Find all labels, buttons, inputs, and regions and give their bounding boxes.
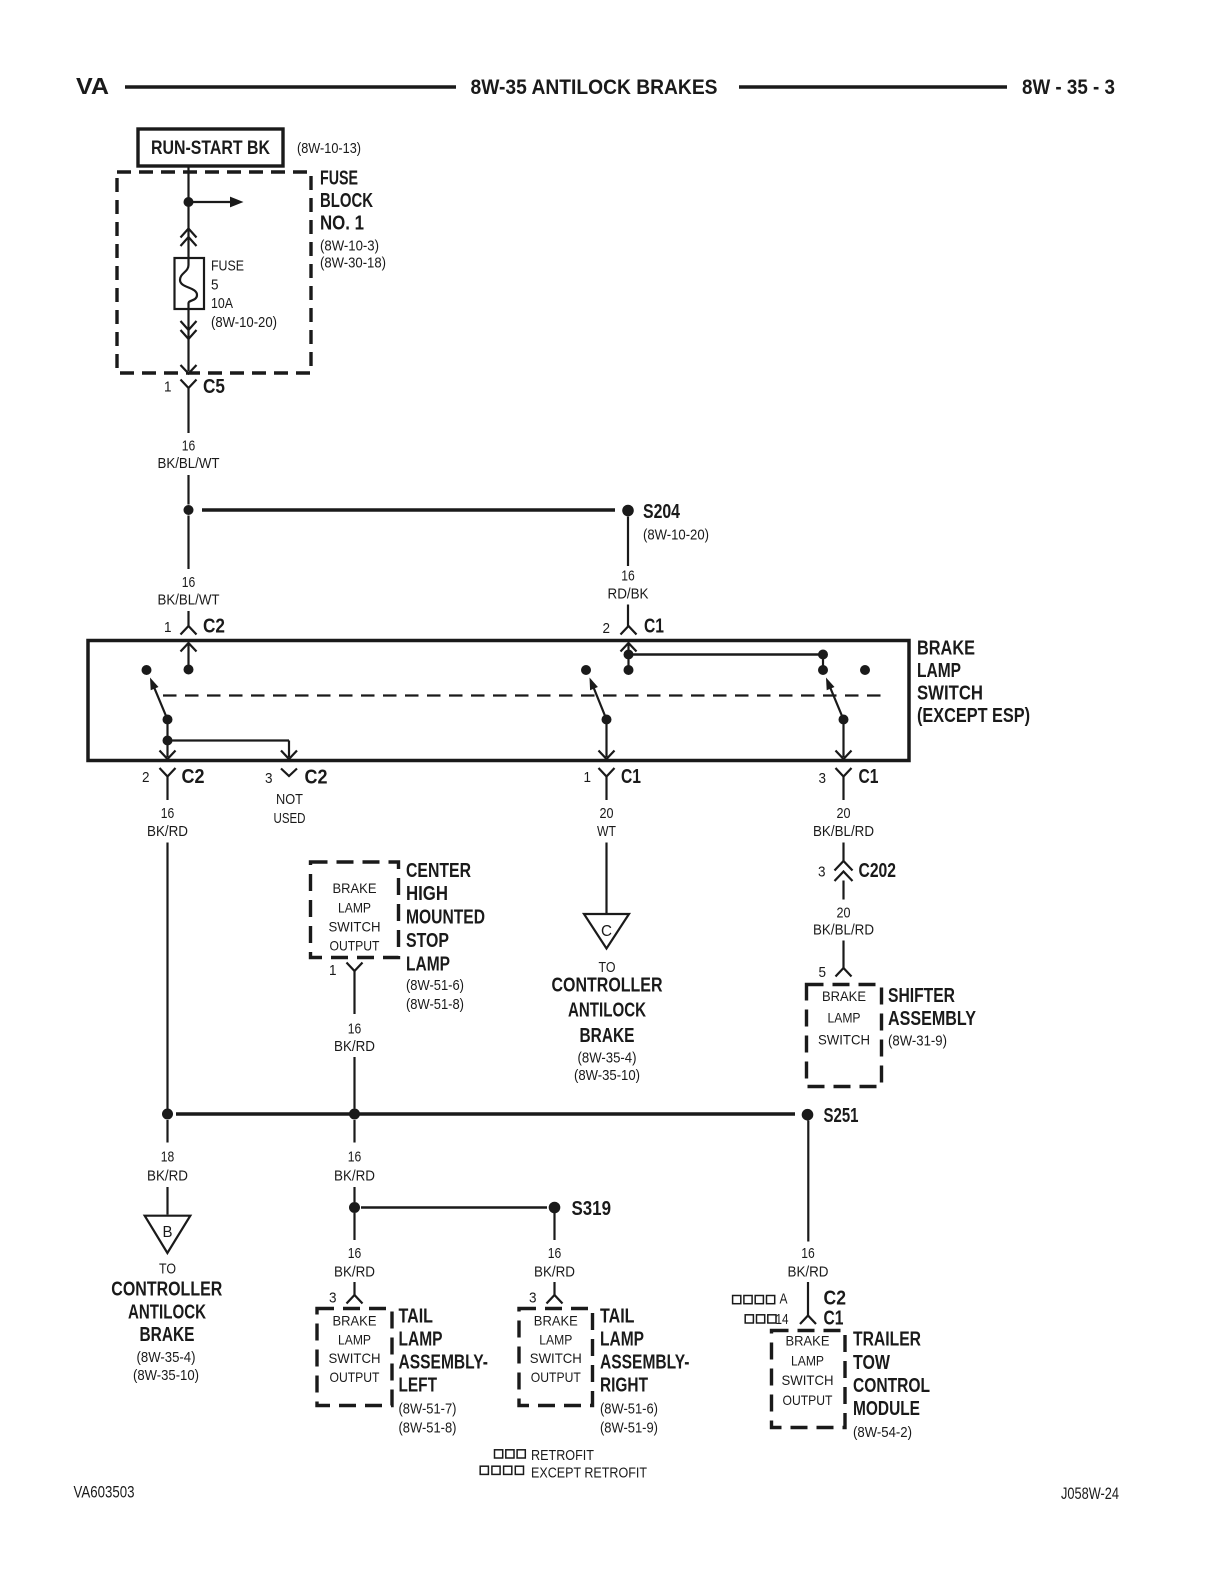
splice S319 dot: [549, 1202, 561, 1214]
wire through C202: [842, 843, 844, 862]
svg-text:C: C: [601, 923, 612, 940]
svg-text:(8W-10-20): (8W-10-20): [211, 314, 277, 331]
svg-text:LAMP: LAMP: [828, 1010, 861, 1026]
svg-text:20: 20: [837, 805, 851, 822]
svg-text:LAMP: LAMP: [539, 1331, 572, 1347]
svg-text:NO. 1: NO. 1: [320, 213, 364, 235]
svg-text:FUSE: FUSE: [211, 258, 244, 275]
svg-text:5: 5: [819, 964, 827, 981]
brake lamp switch box: [88, 641, 909, 761]
svg-text:C202: C202: [859, 860, 897, 882]
switch1 exit arrow right: [281, 751, 297, 760]
svg-text:SHIFTER: SHIFTER: [888, 985, 955, 1007]
svg-text:CONTROLLER: CONTROLLER: [552, 975, 663, 997]
wire S319 link: [361, 1206, 547, 1208]
tail-right pin 3 fork: [547, 1295, 563, 1304]
svg-text:BRAKE: BRAKE: [580, 1025, 635, 1047]
svg-text:TAIL: TAIL: [399, 1306, 434, 1328]
wire mid branch down: [353, 1120, 355, 1143]
pin2 dot lower: [627, 655, 629, 671]
junction dot S251 mid: [349, 1109, 360, 1120]
svg-text:S204: S204: [643, 501, 681, 523]
junction dot S251 left: [162, 1109, 173, 1120]
fuse block No.1 dashed box: [117, 172, 311, 373]
svg-text:16: 16: [182, 438, 196, 455]
connector C5 pin 1 fork: [181, 380, 197, 397]
connector C2 pin 1 fork: [181, 626, 197, 635]
svg-text:S251: S251: [824, 1105, 859, 1127]
svg-text:LAMP: LAMP: [791, 1352, 824, 1368]
off-page triangle C: [584, 914, 629, 949]
switch1 blade: [152, 682, 168, 719]
switch1 junction dot: [163, 736, 173, 746]
svg-text:BK/BL/WT: BK/BL/WT: [158, 592, 220, 609]
wire to triangle B: [166, 1187, 168, 1215]
svg-text:C5: C5: [203, 376, 225, 398]
svg-text:16: 16: [548, 1245, 562, 1262]
wire into tail-left: [353, 1282, 355, 1295]
legend retrofit squares: [495, 1450, 503, 1458]
svg-text:EXCEPT RETROFIT: EXCEPT RETROFIT: [531, 1465, 647, 1482]
svg-text:MODULE: MODULE: [853, 1398, 920, 1420]
svg-text:20: 20: [600, 805, 614, 822]
svg-text:OUTPUT: OUTPUT: [330, 938, 380, 954]
tail-left pin 3 fork: [347, 1295, 363, 1304]
wire into C2 pin1: [187, 611, 189, 626]
svg-text:BK/RD: BK/RD: [147, 823, 188, 840]
svg-text:RD/BK: RD/BK: [608, 586, 649, 603]
svg-text:SWITCH: SWITCH: [329, 919, 381, 935]
switch3 feed dot: [818, 650, 828, 660]
svg-text:BK/RD: BK/RD: [534, 1264, 575, 1281]
svg-text:C1: C1: [621, 766, 641, 788]
svg-text:LAMP: LAMP: [399, 1329, 443, 1351]
svg-text:3: 3: [265, 770, 273, 787]
svg-text:2: 2: [603, 620, 611, 637]
svg-text:BK/RD: BK/RD: [334, 1168, 375, 1185]
svg-text:20: 20: [837, 905, 851, 922]
svg-text:(8W-51-8): (8W-51-8): [406, 996, 464, 1013]
svg-text:BRAKE: BRAKE: [917, 638, 975, 660]
connector C1 pin 3 fork: [836, 768, 852, 785]
feed arrow to other circuits: [193, 201, 230, 203]
svg-text:14: 14: [776, 1311, 789, 1328]
switch3 blade: [828, 682, 844, 719]
svg-text:MOUNTED: MOUNTED: [406, 907, 485, 929]
connector C2 pin 2 fork: [160, 768, 176, 785]
svg-text:BK/BL/WT: BK/BL/WT: [158, 455, 220, 472]
wire chmsl pin1 down: [353, 971, 355, 1014]
svg-text:LAMP: LAMP: [600, 1329, 644, 1351]
svg-text:NOT: NOT: [276, 791, 303, 808]
svg-text:LAMP: LAMP: [917, 660, 961, 682]
junction dot left of S204: [184, 505, 194, 515]
svg-text:(8W-51-7): (8W-51-7): [399, 1401, 457, 1418]
trailer pin 14 squares: [745, 1315, 753, 1323]
svg-text:SWITCH: SWITCH: [782, 1372, 834, 1388]
connector C1 pin 2 fork: [621, 626, 637, 635]
svg-text:16: 16: [348, 1021, 362, 1038]
svg-text:BRAKE: BRAKE: [822, 988, 866, 1004]
wire C2-2 down: [166, 785, 168, 800]
wire tail-right down: [553, 1213, 555, 1240]
svg-text:A: A: [780, 1291, 788, 1308]
svg-text:C1: C1: [644, 616, 664, 638]
svg-text:BK/RD: BK/RD: [147, 1168, 188, 1185]
svg-text:VA: VA: [76, 73, 109, 99]
wire tail-left down: [353, 1213, 355, 1240]
svg-text:(8W-35-10): (8W-35-10): [133, 1367, 199, 1384]
svg-text:VA603503: VA603503: [74, 1483, 135, 1502]
svg-text:BK/BL/RD: BK/BL/RD: [813, 922, 874, 939]
splice S204 dot: [622, 505, 634, 517]
switch2 blade dot: [602, 715, 612, 725]
svg-text:3: 3: [819, 770, 827, 787]
svg-text:OUTPUT: OUTPUT: [330, 1369, 380, 1385]
svg-text:16: 16: [801, 1245, 815, 1262]
wire chmsl to S251: [353, 1057, 355, 1109]
svg-text:RIGHT: RIGHT: [600, 1375, 648, 1397]
svg-text:(8W-51-6): (8W-51-6): [406, 977, 464, 994]
svg-text:SWITCH: SWITCH: [818, 1032, 870, 1048]
svg-text:RETROFIT: RETROFIT: [531, 1447, 594, 1464]
svg-text:BRAKE: BRAKE: [333, 880, 377, 896]
chmsl dashed box: [311, 862, 399, 958]
svg-text:(8W-10-3): (8W-10-3): [320, 238, 379, 255]
svg-text:B: B: [163, 1224, 173, 1241]
switch3 blade dot: [839, 715, 849, 725]
svg-text:ANTILOCK: ANTILOCK: [128, 1302, 206, 1324]
svg-text:2: 2: [142, 769, 150, 786]
svg-text:CONTROLLER: CONTROLLER: [111, 1279, 222, 1301]
wire trailer down: [807, 1121, 809, 1242]
svg-text:ASSEMBLY-: ASSEMBLY-: [399, 1352, 489, 1374]
svg-text:LAMP: LAMP: [338, 1331, 371, 1347]
svg-text:FUSE: FUSE: [320, 168, 358, 190]
svg-text:LAMP: LAMP: [406, 954, 450, 976]
wire run-start to junction: [187, 166, 189, 258]
svg-text:1: 1: [329, 962, 337, 979]
switch1 blade dot: [163, 715, 173, 725]
svg-text:(EXCEPT ESP): (EXCEPT ESP): [917, 705, 1030, 727]
svg-text:C2: C2: [305, 767, 328, 789]
svg-text:(8W-54-2): (8W-54-2): [853, 1424, 912, 1441]
wire into shifter: [842, 941, 844, 969]
fuse 5 body: [175, 258, 205, 309]
svg-text:1: 1: [584, 769, 592, 786]
switch2 exit wire: [605, 720, 607, 758]
svg-text:TO: TO: [599, 959, 616, 976]
switch1 common dot: [142, 665, 152, 675]
svg-text:CONTROL: CONTROL: [853, 1375, 930, 1397]
svg-text:(8W-10-13): (8W-10-13): [297, 140, 361, 157]
svg-text:1: 1: [164, 619, 172, 636]
switch2 common dot: [581, 665, 591, 675]
svg-text:(8W-10-20): (8W-10-20): [643, 527, 709, 544]
svg-text:TAIL: TAIL: [600, 1306, 635, 1328]
svg-text:TOW: TOW: [853, 1352, 890, 1374]
chmsl pin 1 fork: [347, 963, 363, 972]
svg-text:BLOCK: BLOCK: [320, 190, 373, 212]
svg-text:16: 16: [348, 1149, 362, 1166]
svg-text:CENTER: CENTER: [406, 860, 471, 882]
svg-text:BRAKE: BRAKE: [140, 1324, 195, 1346]
svg-text:ASSEMBLY-: ASSEMBLY-: [600, 1352, 690, 1374]
connector C202 chevrons: [835, 861, 853, 871]
wire to S204 junction: [187, 475, 189, 505]
connector C2 pin 3 chevron: [281, 769, 297, 777]
junction dot in fuse block: [184, 197, 194, 207]
splice S251 dot: [802, 1109, 814, 1121]
svg-text:SWITCH: SWITCH: [917, 683, 983, 705]
svg-text:BRAKE: BRAKE: [786, 1333, 830, 1349]
link wire pin2 to switch3: [629, 653, 824, 655]
trailer pin fork: [800, 1316, 816, 1325]
node RUN-START BK box: [138, 129, 283, 166]
svg-text:TRAILER: TRAILER: [853, 1329, 921, 1351]
svg-text:C2: C2: [182, 766, 205, 788]
switch2 blade: [591, 682, 606, 719]
svg-text:BRAKE: BRAKE: [534, 1313, 578, 1329]
wire WT to triangle: [605, 843, 607, 914]
svg-text:WT: WT: [597, 823, 616, 840]
svg-text:LAMP: LAMP: [338, 900, 371, 916]
svg-text:(8W-30-18): (8W-30-18): [320, 255, 386, 272]
svg-text:10A: 10A: [211, 295, 233, 312]
svg-text:BRAKE: BRAKE: [333, 1313, 377, 1329]
switch3 exit wire: [842, 720, 844, 758]
wire into trailer module: [807, 1282, 809, 1316]
svg-text:(8W-51-9): (8W-51-9): [600, 1420, 658, 1437]
svg-text:C2: C2: [203, 616, 225, 638]
header rule left: [125, 85, 456, 89]
wire into tail-right: [553, 1282, 555, 1295]
switch1 exit arrow left: [166, 741, 168, 758]
arrowhead at fuse block exit: [181, 365, 197, 374]
svg-text:C1: C1: [859, 766, 879, 788]
shifter pin 5 fork: [836, 968, 852, 977]
switch3 contact dot: [818, 665, 828, 675]
svg-text:16: 16: [348, 1245, 362, 1262]
wire into C1 pin2: [627, 605, 629, 627]
tail lamp left dashed box: [317, 1309, 392, 1406]
pin2 entry arrow: [621, 643, 637, 652]
svg-text:(8W-31-9): (8W-31-9): [888, 1033, 947, 1050]
wire C1-1 down: [605, 785, 607, 800]
svg-text:J058W-24: J058W-24: [1061, 1484, 1119, 1503]
pin1 entry arrow: [181, 643, 197, 652]
switch1 branch wire: [168, 739, 290, 741]
svg-text:SWITCH: SWITCH: [329, 1350, 381, 1366]
svg-text:OUTPUT: OUTPUT: [531, 1369, 581, 1385]
svg-text:(8W-51-8): (8W-51-8): [399, 1420, 457, 1437]
svg-text:S319: S319: [572, 1198, 612, 1220]
wire left branch down: [166, 1120, 168, 1143]
svg-text:16: 16: [161, 805, 175, 822]
switch gang dashed link: [163, 694, 887, 696]
trailer tow dashed box: [772, 1331, 846, 1428]
svg-text:ANTILOCK: ANTILOCK: [568, 1000, 646, 1022]
connector C1 pin 1 fork: [599, 768, 615, 785]
svg-text:5: 5: [211, 277, 219, 294]
wire C2-2 to S251: [166, 843, 168, 1110]
switch1 stub to junction: [166, 720, 168, 741]
svg-text:16: 16: [621, 568, 635, 585]
svg-text:USED: USED: [274, 810, 306, 827]
header rule right: [739, 85, 1007, 89]
svg-text:18: 18: [161, 1149, 175, 1166]
legend except-retrofit squares: [480, 1466, 488, 1474]
wire C1-3 down: [842, 785, 844, 800]
svg-text:8W - 35 - 3: 8W - 35 - 3: [1022, 76, 1115, 99]
off-page triangle B: [145, 1216, 191, 1253]
svg-text:8W-35 ANTILOCK BRAKES: 8W-35 ANTILOCK BRAKES: [471, 76, 718, 99]
svg-text:1: 1: [164, 379, 172, 396]
svg-text:(8W-35-4): (8W-35-4): [578, 1050, 637, 1067]
svg-text:BK/RD: BK/RD: [788, 1264, 829, 1281]
svg-text:BK/RD: BK/RD: [334, 1264, 375, 1281]
svg-text:SWITCH: SWITCH: [530, 1350, 582, 1366]
svg-text:(8W-35-4): (8W-35-4): [137, 1349, 196, 1366]
connector chevrons below fuse: [181, 321, 197, 330]
svg-text:ASSEMBLY: ASSEMBLY: [888, 1008, 977, 1030]
wire left to C2 pin1: [187, 516, 189, 570]
svg-text:(8W-35-10): (8W-35-10): [574, 1067, 640, 1084]
shifter assembly dashed box: [807, 985, 882, 1087]
wire S204 to C1 pin2: [627, 517, 629, 567]
trailer pin A squares: [733, 1296, 741, 1304]
wire S204 bus: [202, 508, 615, 512]
svg-text:OUTPUT: OUTPUT: [783, 1392, 833, 1408]
junction dot tail left: [349, 1202, 360, 1213]
wire fuse to box edge: [187, 309, 189, 371]
svg-text:3: 3: [818, 864, 826, 881]
svg-text:C2: C2: [824, 1288, 847, 1310]
svg-text:LEFT: LEFT: [399, 1375, 438, 1397]
switch spare contact dot: [860, 665, 870, 675]
svg-text:STOP: STOP: [406, 930, 449, 952]
wire to S319 junction: [353, 1187, 355, 1202]
wire C5 down: [187, 397, 189, 434]
svg-text:BK/RD: BK/RD: [334, 1038, 375, 1055]
svg-text:RUN-START BK: RUN-START BK: [151, 138, 270, 159]
svg-text:3: 3: [329, 1290, 337, 1307]
wire S251 bus: [176, 1112, 795, 1116]
svg-text:BK/BL/RD: BK/BL/RD: [813, 823, 874, 840]
connector chevrons above fuse: [181, 229, 197, 238]
tail lamp right dashed box: [519, 1309, 593, 1406]
pin1 contact dot: [184, 665, 194, 675]
svg-text:(8W-51-6): (8W-51-6): [600, 1401, 658, 1418]
svg-text:16: 16: [182, 574, 196, 591]
svg-text:TO: TO: [159, 1261, 176, 1278]
svg-text:3: 3: [529, 1290, 537, 1307]
svg-text:C1: C1: [824, 1308, 844, 1330]
svg-text:HIGH: HIGH: [406, 883, 448, 905]
pin2 dot upper: [624, 650, 634, 660]
